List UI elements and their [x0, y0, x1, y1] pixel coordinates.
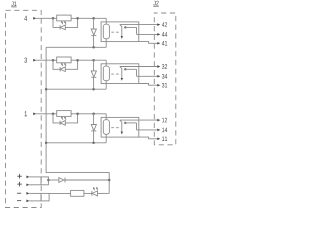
wire COM to terminal 31 — [139, 84, 158, 86]
supply + terminal b (J1) — [17, 182, 29, 187]
connector J1 boundary (dashed box) — [6, 10, 42, 207]
wire - terminal a — [29, 192, 41, 194]
node F — [108, 179, 111, 182]
wire COM to terminal 41 — [139, 42, 158, 44]
mechanical link K2 — [111, 73, 119, 75]
supply - terminal a (J1) — [17, 192, 29, 195]
wire + terminal b — [29, 184, 41, 186]
coil return bus wire — [46, 47, 109, 193]
wire NC to terminal 12 — [120, 119, 158, 121]
mechanical link K3 — [111, 127, 119, 129]
LED V21 branch wire — [53, 60, 60, 69]
relay K1 coil — [103, 18, 109, 47]
power LED V42 — [92, 187, 98, 196]
node E — [47, 179, 50, 182]
LED V31 branch wire — [53, 114, 60, 123]
wire input to node — [36, 113, 57, 115]
bridge link X1 (+ pair) — [41, 177, 48, 185]
wire input to node — [36, 59, 57, 61]
wire input to node — [36, 17, 57, 19]
terminal 14 (J2) — [157, 128, 167, 132]
terminal 11 (J2) — [157, 137, 167, 141]
resistor R11 — [57, 15, 71, 21]
contact K1 NO fixed contact — [124, 26, 136, 34]
node bus-rail2 — [45, 88, 48, 91]
node A3 — [52, 113, 55, 116]
relay K3 box — [101, 117, 139, 137]
suppressor diode V22 — [91, 60, 96, 89]
node D1 — [92, 46, 95, 49]
relay K2 box — [101, 64, 139, 84]
node A1 — [52, 17, 55, 20]
LED V11 — [60, 21, 66, 29]
wire resistor to coil node — [71, 113, 106, 115]
node C1 — [92, 17, 95, 20]
node C2 — [92, 59, 95, 62]
wire resistor to coil node — [71, 59, 106, 61]
node A2 — [52, 59, 55, 62]
terminal 32 (J2) — [157, 64, 167, 69]
terminal 34 (J2) — [157, 74, 167, 79]
wire NO to terminal 34 — [137, 75, 158, 77]
wire NC to terminal 42 — [120, 24, 158, 26]
coil return rail 2 — [46, 88, 106, 90]
wire LED to node — [65, 114, 77, 123]
connector J2 label — [153, 1, 158, 6]
supply - terminal b (J1) — [17, 200, 29, 203]
input terminal 1 (J1) — [25, 111, 37, 116]
resistor R31 — [57, 111, 71, 117]
wire LED to node — [65, 18, 77, 27]
wire diode to bus — [64, 179, 109, 181]
node D2 — [92, 88, 95, 91]
node bus-rail3 — [45, 142, 48, 145]
supply + terminal a (J1) — [17, 174, 29, 179]
wire LED to bus — [98, 192, 110, 194]
bridge link X2 (- pair) — [41, 193, 49, 201]
node D3 — [92, 142, 95, 145]
wire to resistor R41 — [49, 192, 71, 194]
wire resistor to coil node — [71, 17, 106, 19]
node B2 — [76, 59, 79, 62]
resistor R41 — [71, 190, 84, 196]
node B3 — [76, 113, 79, 116]
wire - terminal b — [29, 200, 41, 202]
LED V11 branch wire — [53, 18, 60, 27]
contact K3 NO fixed contact — [124, 122, 136, 130]
terminal 42 (J2) — [157, 22, 167, 27]
terminal 12 (J2) — [157, 118, 167, 123]
connector J1 label — [11, 2, 16, 7]
wire NC to terminal 32 — [120, 66, 158, 68]
node B1 — [76, 17, 79, 20]
wire + terminal a — [29, 176, 41, 178]
terminal 44 (J2) — [157, 32, 167, 36]
suppressor diode V12 — [91, 18, 96, 47]
connector J2 boundary (dashed box) — [154, 13, 176, 145]
input terminal 3 (J1) — [24, 58, 36, 63]
coil return rail 3 — [46, 142, 106, 144]
relay K1 box — [101, 22, 139, 42]
node C3 — [92, 113, 95, 116]
terminal 41 (J2) — [157, 41, 167, 45]
wire LED to node — [65, 60, 77, 69]
mechanical link K1 — [111, 31, 119, 33]
contact K3 moving arm — [120, 120, 123, 134]
coil return rail 1 — [46, 46, 106, 48]
input terminal 4 (J1) — [24, 16, 36, 21]
wire NO to terminal 14 — [137, 129, 158, 131]
wire to diode V41 — [48, 179, 59, 181]
relay K2 coil — [103, 60, 109, 89]
suppressor diode V32 — [91, 114, 96, 143]
LED V31 — [60, 117, 66, 125]
wire COM to terminal 11 — [139, 137, 158, 139]
reverse polarity diode V41 — [59, 178, 65, 183]
contact K2 moving arm — [120, 67, 123, 81]
contact K2 NO fixed contact — [124, 68, 136, 76]
resistor R21 — [57, 57, 71, 63]
LED V21 — [60, 63, 66, 71]
wire resistor to LED — [84, 192, 92, 194]
terminal 31 (J2) — [157, 83, 167, 88]
wire NO to terminal 44 — [137, 33, 158, 35]
contact K1 moving arm — [120, 25, 123, 39]
relay K3 coil — [103, 114, 109, 143]
